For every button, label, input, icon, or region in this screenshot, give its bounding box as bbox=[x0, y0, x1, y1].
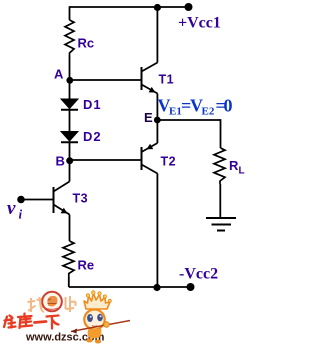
diode D2 bbox=[61, 132, 78, 143]
svg-text:T3: T3 bbox=[73, 192, 89, 206]
svg-text:-Vcc2: -Vcc2 bbox=[179, 266, 218, 283]
transistor T1 bbox=[142, 63, 158, 94]
wire RL to ground bbox=[219, 184, 221, 218]
diode D1 bbox=[61, 99, 78, 110]
svg-text:A: A bbox=[54, 67, 64, 82]
resistor RL bbox=[214, 148, 225, 184]
svg-text:i: i bbox=[19, 207, 23, 222]
wire T2 emitter to node E bbox=[156, 120, 158, 143]
wire Re to bottom rail bbox=[68, 277, 70, 287]
wire node B to T3 collector bbox=[69, 160, 71, 182]
wire node A to T1 base bbox=[70, 79, 142, 81]
transistor T2 bbox=[142, 143, 158, 174]
svg-text:B: B bbox=[56, 154, 65, 169]
watermark text weikuyixia bbox=[4, 314, 59, 329]
node junction bottom rail / T2 collector bbox=[153, 284, 160, 291]
svg-text:D1: D1 bbox=[83, 97, 102, 112]
wire T1 collector to top rail bbox=[156, 7, 158, 63]
watermark mascot bbox=[71, 291, 130, 344]
wire T3 emitter to Re bbox=[69, 215, 71, 242]
svg-text:Re: Re bbox=[78, 258, 95, 273]
svg-text:T2: T2 bbox=[161, 155, 177, 169]
svg-text:E1: E1 bbox=[169, 106, 182, 118]
node A bbox=[66, 77, 73, 84]
wire node A to D1 bbox=[69, 80, 71, 100]
ground bbox=[206, 218, 236, 231]
wire Rc to node A bbox=[69, 56, 71, 81]
svg-text:E: E bbox=[144, 110, 153, 125]
watermark faded character pian bbox=[66, 296, 76, 312]
label vi bbox=[7, 198, 23, 222]
svg-text:D2: D2 bbox=[83, 129, 102, 144]
resistor Re bbox=[63, 241, 74, 277]
wire D2 to node B bbox=[69, 142, 71, 161]
node terminal +Vcc1 bbox=[185, 3, 193, 11]
svg-text:L: L bbox=[239, 166, 245, 177]
wire T2 collector to bottom rail bbox=[156, 174, 158, 288]
svg-text:v: v bbox=[7, 198, 16, 219]
wire D1 to D2 bbox=[69, 110, 71, 132]
wire node E to RL bbox=[157, 119, 220, 121]
wire T1 emitter to node E bbox=[156, 94, 158, 121]
svg-text:+Vcc1: +Vcc1 bbox=[178, 15, 221, 32]
wire vi to T3 base bbox=[21, 199, 54, 201]
wire bottom rail -Vcc2 bbox=[69, 286, 191, 288]
svg-text:Rc: Rc bbox=[78, 36, 95, 51]
node B bbox=[66, 157, 73, 164]
transistor T3 bbox=[54, 182, 70, 215]
watermark emblem circle bbox=[42, 292, 62, 312]
wire node E to RL top bbox=[220, 119, 222, 148]
node terminal -Vcc2 bbox=[187, 283, 195, 291]
watermark faded character zhao bbox=[28, 297, 45, 312]
wire top rail +Vcc1 bbox=[70, 6, 189, 8]
svg-text:0: 0 bbox=[224, 96, 233, 116]
label VE1=VE2=0 bbox=[158, 96, 233, 118]
svg-text:R: R bbox=[229, 158, 239, 173]
wire rail to Rc bbox=[69, 6, 71, 20]
wire node B to T2 base bbox=[70, 159, 142, 161]
svg-text:E2: E2 bbox=[202, 106, 215, 118]
node junction top rail / T1 collector bbox=[154, 4, 161, 11]
node E bbox=[154, 117, 161, 124]
resistor Rc bbox=[65, 20, 74, 56]
node terminal vi input bbox=[17, 196, 25, 204]
svg-text:T1: T1 bbox=[159, 73, 175, 87]
